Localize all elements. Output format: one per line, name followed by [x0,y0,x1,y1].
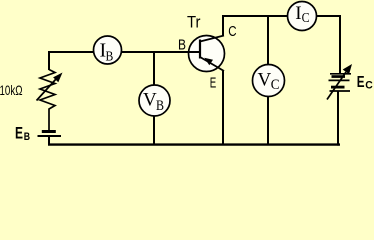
svg-text:B: B [106,50,114,65]
svg-text:B: B [178,37,186,53]
wire: left branch vertical (corner to zigzag top) [48,51,50,70]
transistor base bar [199,40,201,59]
wire: VC branch vertical [267,16,269,145]
ammeter IC [288,2,317,31]
variable source EC: thin plate [330,73,351,75]
wire: battery EB to bottom rail [48,136,50,146]
transistor Tr circle [189,36,225,72]
svg-text:C: C [302,11,310,26]
svg-text:10kΩ: 10kΩ [0,82,23,98]
variable source EC: arrow [327,64,352,100]
wire: emitter vertical down to bottom rail [222,70,224,145]
variable source EC: thin plate [329,79,350,81]
transistor base lead (inside circle) [189,51,201,53]
svg-text:C: C [365,80,373,92]
voltmeter VC [253,65,285,97]
voltmeter VB [139,85,170,116]
svg-text:E: E [15,124,23,142]
svg-text:V: V [258,70,272,91]
transistor collector lead [200,36,224,42]
wire: collector vertical up to top rail [222,15,224,36]
transistor emitter lead [200,57,224,71]
variable source EC: thick plate [332,75,346,78]
svg-text:E: E [210,75,217,91]
ammeter IB [94,36,122,64]
variable resistor 10kΩ zigzag [40,70,55,131]
svg-text:B: B [24,131,30,143]
variable source EC: thick plate [331,86,345,89]
wire: VB branch vertical [153,52,155,145]
resistor variable arrow [37,73,63,101]
svg-text:Tr: Tr [187,13,201,32]
svg-text:V: V [143,90,157,111]
wire: top-left rail from resistor corner to transistor base [48,51,200,53]
svg-text:C: C [271,77,280,93]
battery EB: thin bottom plate [38,135,62,137]
wire: bottom rail [48,143,340,145]
wire: right branch vertical (bottom) [337,91,339,146]
svg-text:B: B [156,98,164,114]
wire: right branch vertical (top) [339,15,341,74]
svg-text:E: E [357,74,365,91]
wire: top-right rail [222,15,341,17]
battery EB: thick top plate [42,130,56,133]
transistor emitter arrow (PNP, pointing to base) [204,58,213,66]
svg-text:C: C [228,24,236,40]
variable source EC: thin plate [330,90,351,92]
